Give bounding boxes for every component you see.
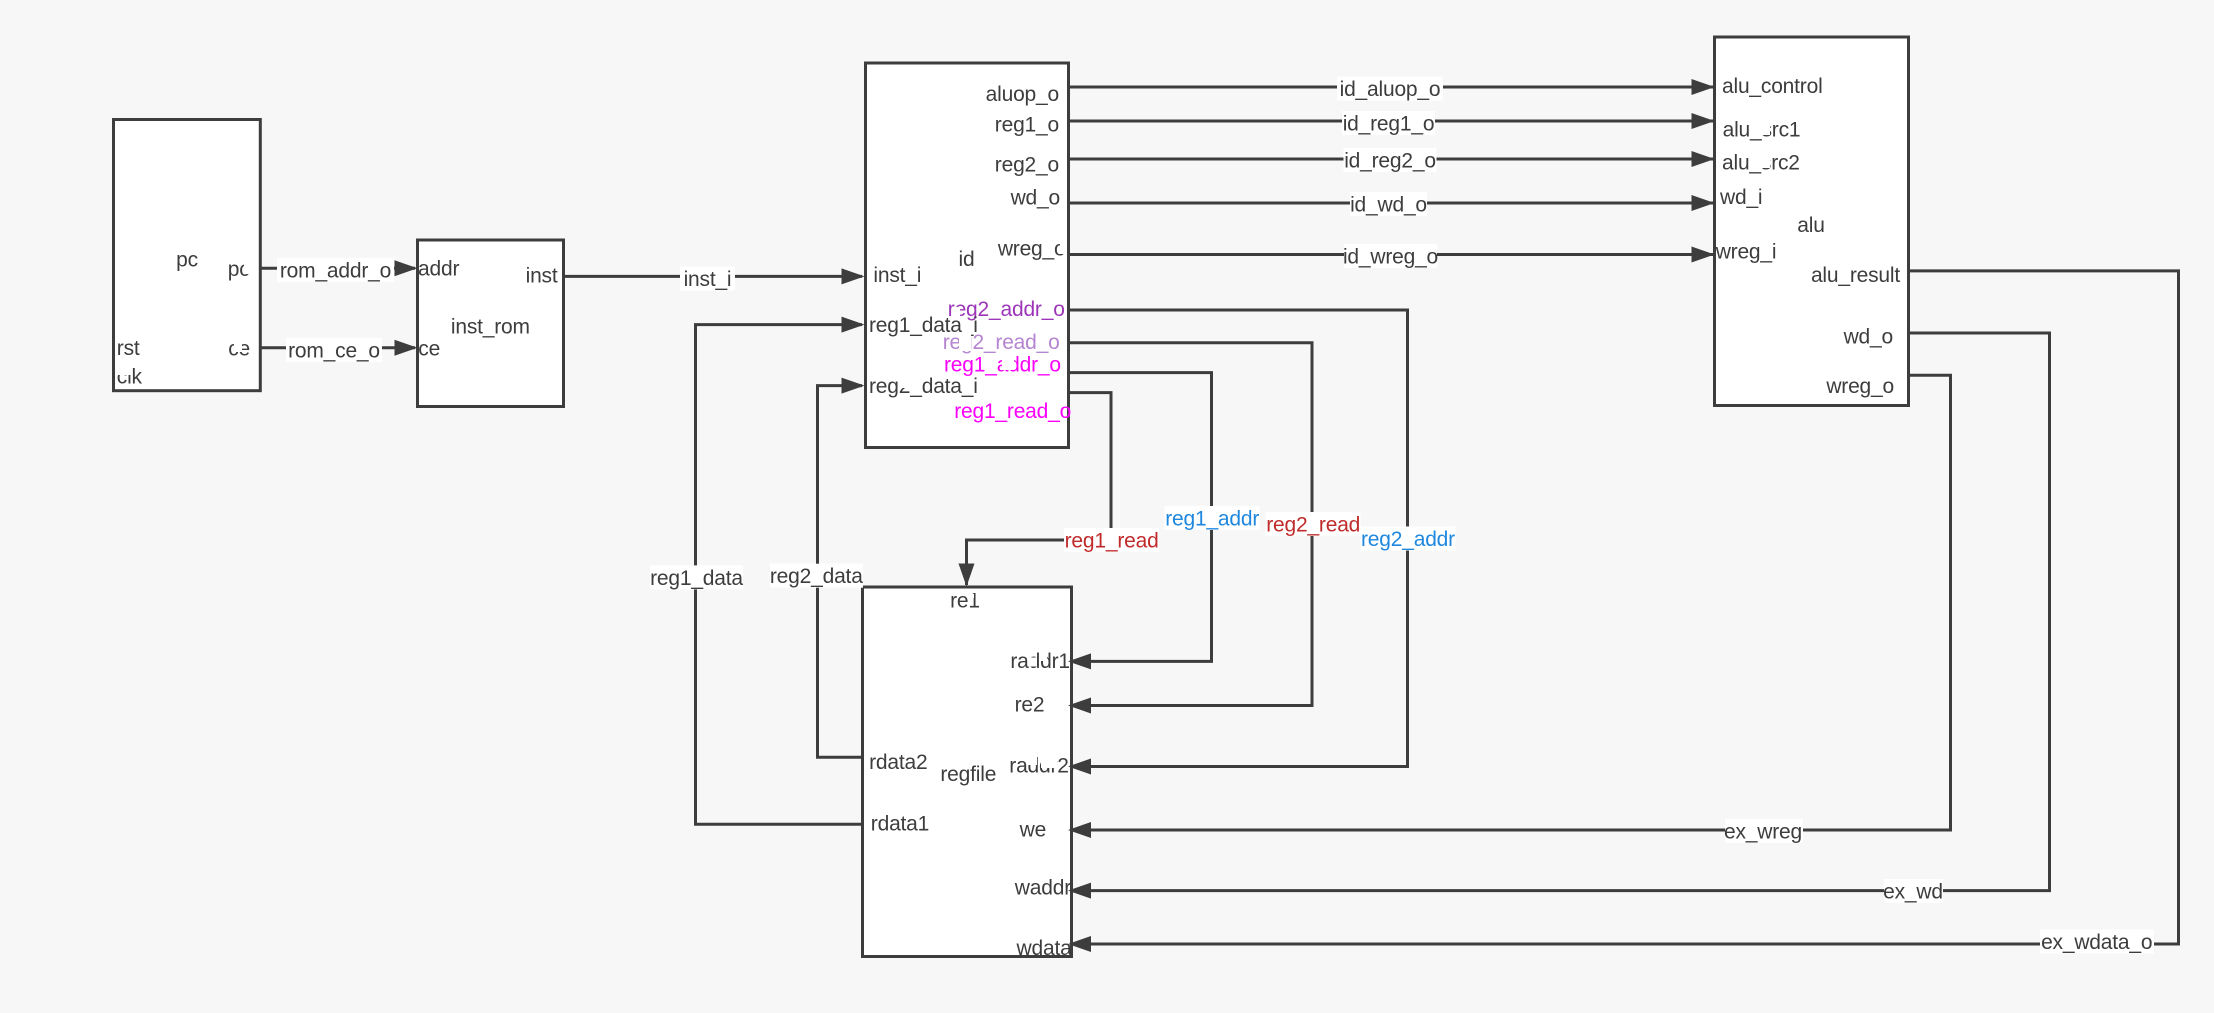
svg-text:ex_wreg: ex_wreg — [1724, 821, 1802, 844]
svg-text:rom_ce_o: rom_ce_o — [288, 340, 380, 363]
svg-text:ce: ce — [418, 338, 440, 361]
svg-text:inst_i: inst_i — [684, 268, 732, 291]
svg-text:reg2_addr: reg2_addr — [1361, 528, 1455, 551]
svg-text:reg2_data_i: reg2_data_i — [869, 375, 978, 398]
svg-text:wdata: wdata — [1016, 937, 1073, 960]
svg-text:reg2_read: reg2_read — [1266, 514, 1360, 537]
svg-text:id_aluop_o: id_aluop_o — [1340, 78, 1441, 101]
svg-text:inst: inst — [526, 265, 558, 288]
svg-text:reg1_addr: reg1_addr — [1165, 508, 1259, 531]
svg-text:id_reg1_o: id_reg1_o — [1343, 113, 1435, 136]
svg-text:wd_i: wd_i — [1719, 186, 1762, 209]
svg-text:waddr: waddr — [1014, 876, 1071, 899]
svg-text:reg1_data: reg1_data — [650, 567, 743, 590]
svg-text:inst_i: inst_i — [873, 264, 921, 287]
svg-text:wd_o: wd_o — [1010, 187, 1060, 210]
svg-text:alu_result: alu_result — [1811, 264, 1900, 287]
svg-text:reg2_o: reg2_o — [995, 154, 1059, 177]
svg-text:id_wd_o: id_wd_o — [1350, 194, 1427, 217]
svg-text:id_wreg_o: id_wreg_o — [1343, 246, 1438, 269]
svg-text:raddr1: raddr1 — [1010, 650, 1070, 673]
svg-text:reg1_read: reg1_read — [1065, 530, 1159, 553]
svg-text:we: we — [1019, 819, 1046, 842]
svg-text:re2: re2 — [1015, 694, 1045, 717]
svg-text:wreg_o: wreg_o — [997, 238, 1066, 261]
svg-text:ex_wdata_o: ex_wdata_o — [2041, 931, 2152, 954]
svg-text:wreg_o: wreg_o — [1825, 375, 1894, 398]
svg-text:rdata2: rdata2 — [869, 751, 927, 774]
svg-text:wreg_i: wreg_i — [1715, 240, 1777, 263]
svg-text:wd_o: wd_o — [1843, 326, 1893, 349]
svg-text:regfile: regfile — [940, 763, 996, 786]
svg-text:rom_addr_o: rom_addr_o — [280, 260, 391, 283]
svg-text:id_reg2_o: id_reg2_o — [1344, 150, 1436, 173]
svg-text:inst_rom: inst_rom — [451, 316, 530, 339]
svg-text:rdata1: rdata1 — [871, 812, 929, 835]
svg-text:reg1_data_i: reg1_data_i — [869, 314, 978, 337]
svg-text:rst: rst — [117, 337, 140, 360]
svg-text:alu_control: alu_control — [1722, 75, 1823, 98]
svg-text:ex_wd: ex_wd — [1883, 881, 1943, 904]
svg-text:re1: re1 — [950, 590, 980, 613]
svg-text:addr: addr — [418, 258, 459, 281]
svg-text:alu: alu — [1797, 214, 1824, 237]
svg-text:reg2_data: reg2_data — [770, 565, 863, 588]
svg-text:reg1_read_o: reg1_read_o — [954, 400, 1071, 423]
svg-text:reg1_o: reg1_o — [995, 114, 1059, 137]
svg-text:aluop_o: aluop_o — [986, 83, 1059, 106]
svg-text:pc: pc — [176, 249, 198, 272]
svg-text:id: id — [959, 248, 975, 271]
svg-text:raddr2: raddr2 — [1009, 755, 1069, 778]
